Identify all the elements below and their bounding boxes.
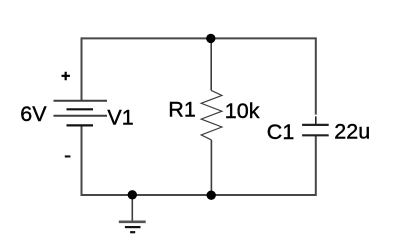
capacitor C1 [302, 116, 329, 135]
wire left vertical upper [81, 37, 83, 100]
ground [119, 195, 146, 232]
svg-text:+: + [61, 68, 70, 85]
node junction dot bottom (resistor) [207, 191, 216, 200]
wire bottom (node 0) [81, 194, 316, 196]
svg-text:C1: C1 [267, 120, 294, 144]
svg-text:10k: 10k [225, 99, 260, 123]
wire left vertical lower [81, 125, 83, 195]
svg-text:6V: 6V [20, 102, 47, 126]
wire right vertical lower [315, 135, 317, 196]
wire resistor bottom lead [210, 140, 212, 195]
svg-text:R1: R1 [168, 98, 195, 122]
node junction dot bottom (ground) [128, 190, 137, 199]
wire top (node 1) [82, 37, 316, 39]
battery minus sign [65, 155, 71, 157]
battery V1 [54, 101, 108, 126]
resistor R1 [201, 90, 222, 139]
svg-text:V1: V1 [107, 106, 133, 130]
wire right vertical upper [315, 37, 317, 114]
wire resistor top lead [210, 38, 212, 90]
svg-text:22u: 22u [334, 119, 370, 143]
node junction dot top (resistor) [206, 34, 215, 43]
